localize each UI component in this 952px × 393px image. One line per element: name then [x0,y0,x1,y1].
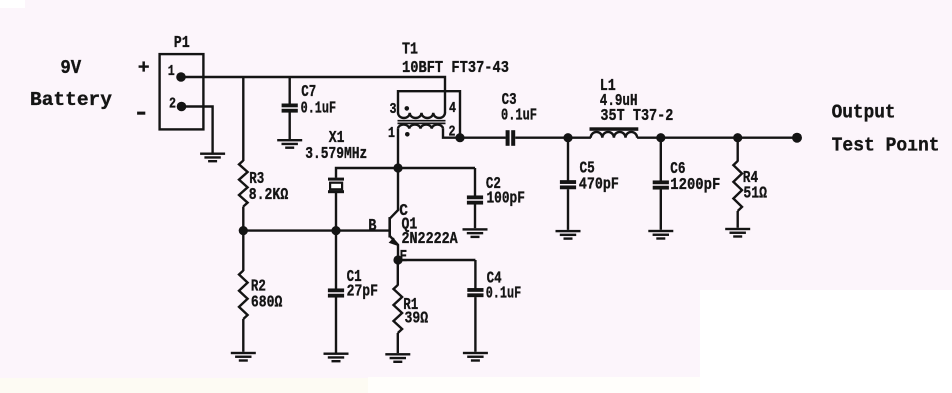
P1 pin 2 [177,102,187,112]
wire X1 bottom to base line [335,193,337,231]
svg-text:3.579MHz: 3.579MHz [305,145,367,164]
ground R2 [231,352,256,362]
capacitor C7 [282,104,298,113]
node X1 / C1 base junction [331,226,340,235]
wire collector node to C2 [398,167,475,169]
transistor Q1 base bar [388,217,391,237]
node T1 pin3 / output line junction [455,133,464,142]
C4 value labels [486,270,522,304]
svg-text:P1: P1 [174,34,190,53]
capacitor C2 [467,195,483,204]
svg-text:2N2222A: 2N2222A [402,230,459,249]
svg-text:100pF: 100pF [487,190,525,209]
wire C5 top [567,138,569,181]
Q1 emitter arrow [389,237,398,245]
wire C5 bottom [567,189,569,230]
svg-text:0.1uF: 0.1uF [486,284,522,303]
Q1 reference labels [402,216,459,250]
wire R2 bottom [242,319,244,352]
capacitor C4 [467,288,483,297]
svg-text:2: 2 [169,97,176,113]
resistor R1 [394,285,403,333]
C3 value labels [501,91,537,125]
svg-text:Test Poınt: Test Poınt [832,135,940,157]
wire C6 bottom [660,190,662,230]
minus symbol [137,112,145,115]
wire R1 top [397,260,399,286]
wire C4 bottom [474,297,476,352]
wire C1 top [335,231,337,289]
node collector junction [393,163,402,172]
background patches [0,378,368,393]
svg-text:4: 4 [449,101,456,117]
crystal X1 body [330,183,342,190]
wire T1 pin2 to output node [443,129,460,138]
transistor Q1 emitter lead [390,236,398,260]
ground R4 [725,228,750,238]
wire R4 top [737,138,739,162]
P1 pin 1 [176,72,186,82]
capacitor C5 [560,180,576,189]
svg-text:1: 1 [388,126,395,142]
wire R2 top [242,231,244,271]
svg-text:9V: 9V [60,57,81,79]
resistor R2 [239,271,248,320]
svg-text:3: 3 [390,102,397,118]
svg-text:0.1uF: 0.1uF [501,106,537,125]
resistor R3 [239,161,248,207]
inductor L1 core bar [590,127,639,131]
capacitor C1 [328,288,344,297]
node R4 junction [733,133,742,142]
wire P1 pin2 to ground [182,107,213,153]
R1 value labels [403,296,428,329]
svg-text:27pF: 27pF [347,283,378,302]
wire C2 bottom [474,205,476,229]
T1 phase dot bottom [405,132,410,137]
wire R4 bottom [737,211,739,228]
svg-text:1200pF: 1200pF [670,176,720,195]
svg-text:B: B [368,217,376,236]
L1 labels [600,77,674,126]
wire base line [243,229,389,231]
svg-text:1: 1 [168,64,175,80]
C7 value labels [301,83,337,118]
wire C1 bottom [335,298,337,353]
node C5 junction [563,133,572,142]
ground P1 [200,153,225,163]
node base junction at R3/R2 [239,226,248,235]
svg-text:470pF: 470pF [579,176,619,195]
C2 value labels [486,175,525,209]
node output test point terminal [792,133,802,143]
wire output line C3 to L1 [515,136,591,138]
C5 value labels [579,159,619,194]
ground R1 [385,353,410,363]
node C6 junction [656,133,665,142]
wire +9V rail from P1 pin1 to T1 pin4 [181,77,445,113]
wire T1 pin1 to collector node [397,129,399,168]
wire R3 top [242,77,244,161]
wire C7 top [289,77,291,104]
T1 phase dot top [405,106,410,111]
wire R1 bottom [397,333,399,353]
C6 value labels [670,160,720,195]
ground C1 [324,353,349,363]
R2 value labels [251,277,282,312]
ground C6 [648,230,673,240]
svg-text:+: + [138,57,150,79]
wire output line left segment [460,136,506,138]
svg-text:Output: Output [832,102,896,124]
ground C7 [277,139,302,149]
wire emitter node to C4 [398,259,475,261]
capacitor C3 plates [506,130,516,146]
inductor L1 winding [591,132,637,138]
R4 value labels [743,169,767,204]
transformer T1 top winding [398,113,445,118]
transformer T1 bottom winding [398,125,443,129]
svg-text:2: 2 [449,125,456,141]
svg-text:Battery: Battery [30,89,112,111]
svg-text:T1: T1 [402,41,418,60]
wire output line right segment [637,136,797,138]
capacitor C6 [653,180,669,189]
C1 value labels [347,268,378,302]
node emitter junction [393,255,402,264]
T1 reference labels [402,41,509,78]
connector P1 box [160,54,204,129]
wire C7 bottom [289,112,291,139]
svg-text:8.2KΩ: 8.2KΩ [249,186,288,205]
crystal X1 bottom plate [328,190,344,193]
svg-text:680Ω: 680Ω [251,294,282,313]
wire X1 top to collector node [336,168,398,178]
transformer T1 pin3 link wire to output node [398,91,460,138]
X1 labels [305,129,367,164]
wire C2 top [474,168,476,196]
wire R3 bottom [242,207,244,231]
transformer T1 core [398,121,446,124]
svg-text:0.1uF: 0.1uF [301,100,337,119]
ground C2 [463,228,488,238]
svg-text:39Ω: 39Ω [405,310,429,329]
wire C6 top [660,138,662,181]
transistor Q1 collector lead [390,168,398,219]
ground C4 [463,352,488,362]
svg-text:35T T37-2: 35T T37-2 [600,107,673,126]
R3 value labels [249,170,288,205]
crystal X1 top plate [328,178,344,181]
svg-text:51Ω: 51Ω [743,185,767,204]
svg-text:10BFT FT37-43: 10BFT FT37-43 [402,59,509,78]
resistor R4 [733,161,742,211]
ground C5 [556,230,581,240]
wire C4 top [474,260,476,289]
